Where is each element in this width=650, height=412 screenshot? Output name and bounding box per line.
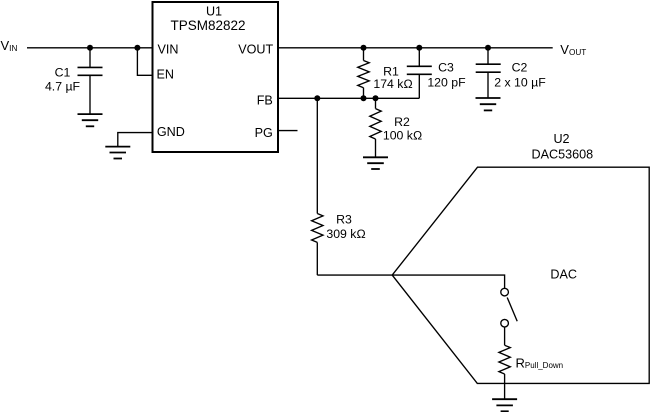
svg-text:100 kΩ: 100 kΩ bbox=[383, 128, 422, 142]
svg-text:C1: C1 bbox=[55, 65, 71, 79]
svg-text:FB: FB bbox=[257, 93, 273, 107]
resistor R1 174k bbox=[363, 48, 365, 61]
junction R2 top on FB net bbox=[373, 95, 379, 101]
junction EN tap on VIN net bbox=[134, 45, 140, 51]
capacitor C1 bbox=[89, 48, 91, 68]
ground (R2) bbox=[363, 156, 388, 158]
svg-text:VIN: VIN bbox=[158, 42, 179, 56]
ground (C2) bbox=[476, 97, 501, 99]
svg-text:VOUT: VOUT bbox=[238, 42, 273, 56]
svg-text:EN: EN bbox=[157, 68, 175, 82]
svg-text:C3: C3 bbox=[438, 61, 454, 75]
capacitor C2 bbox=[487, 48, 489, 64]
wire U2 vertex to switch bbox=[392, 275, 504, 288]
wire FB net bbox=[278, 97, 419, 99]
svg-text:U1: U1 bbox=[206, 5, 222, 19]
wire EN branch bbox=[137, 48, 152, 76]
junction C3 top on VOUT net bbox=[416, 45, 422, 51]
svg-text:309 kΩ: 309 kΩ bbox=[326, 227, 365, 241]
svg-text:120 pF: 120 pF bbox=[427, 75, 466, 89]
resistor RPull_Down bbox=[504, 327, 506, 345]
wire VIN input bbox=[27, 47, 153, 49]
resistor R2 100k bbox=[375, 98, 377, 108]
svg-text:DAC: DAC bbox=[550, 268, 577, 282]
svg-text:TPSM82822: TPSM82822 bbox=[170, 18, 245, 33]
svg-text:2 x 10 µF: 2 x 10 µF bbox=[494, 75, 546, 89]
svg-text:PG: PG bbox=[255, 126, 273, 140]
junction R1 bottom on FB net bbox=[361, 95, 367, 101]
svg-text:174 kΩ: 174 kΩ bbox=[373, 77, 412, 91]
wire R3 to U2 input bbox=[317, 274, 392, 276]
wire GND pin stub bbox=[118, 133, 153, 147]
junction C1 tap on VIN net bbox=[87, 45, 93, 51]
junction C2 top on VOUT net bbox=[485, 45, 491, 51]
svg-text:GND: GND bbox=[157, 125, 185, 139]
wire FB to R3 bbox=[316, 98, 318, 213]
IC U1 TPSM82822 box bbox=[153, 2, 279, 152]
IC U2 DAC53608 polygon bbox=[392, 167, 649, 383]
svg-text:DAC53608: DAC53608 bbox=[531, 147, 593, 161]
ground (RPull_Down) bbox=[492, 398, 517, 400]
ground (C1) bbox=[78, 113, 103, 115]
svg-text:4.7 µF: 4.7 µF bbox=[45, 80, 81, 94]
resistor R3 309k bbox=[312, 214, 323, 243]
junction R1 top on VOUT net bbox=[361, 45, 367, 51]
svg-text:C2: C2 bbox=[512, 60, 528, 74]
wire PG stub bbox=[278, 130, 298, 132]
ground (U1 GND) bbox=[105, 146, 130, 148]
switch (open) bbox=[501, 288, 509, 296]
svg-text:R3: R3 bbox=[336, 213, 352, 227]
svg-text:R2: R2 bbox=[394, 115, 410, 129]
wire VOUT output bbox=[278, 47, 553, 49]
junction R3 tap on FB net bbox=[314, 95, 320, 101]
svg-text:U2: U2 bbox=[553, 132, 569, 146]
capacitor C3 bbox=[418, 48, 420, 67]
